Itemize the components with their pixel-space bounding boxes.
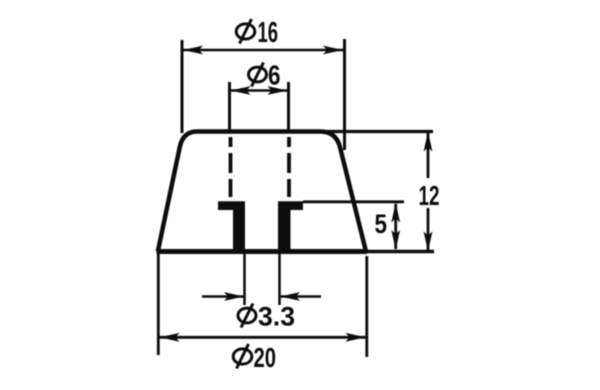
extension line phi16 left — [181, 40, 184, 133]
extension line phi6 right — [287, 82, 290, 131]
arrowhead phi16 left — [183, 46, 203, 55]
svg-text:12: 12 — [419, 180, 440, 211]
label phi6 — [249, 60, 281, 91]
dimension line phi16 — [183, 49, 343, 52]
extension line phi20 right — [365, 256, 368, 357]
svg-text:3.3: 3.3 — [258, 302, 295, 332]
body outline top and sides — [158, 132, 366, 252]
extension line 5 dim (flange top extended) — [303, 200, 404, 203]
arrowhead 5 top — [391, 203, 400, 223]
extension line phi6 left — [228, 82, 231, 131]
arrowhead 12 bottom — [424, 232, 433, 252]
label phi20 — [233, 342, 276, 373]
arrowhead phi16 right — [323, 46, 343, 55]
arrowhead phi6 left — [231, 86, 251, 95]
dimension line phi3.3 left tail — [202, 295, 244, 298]
body bottom edge — [157, 249, 368, 254]
svg-text:5: 5 — [375, 209, 388, 239]
dimension line phi20 — [159, 336, 366, 339]
dimension line phi3.3 right tail — [280, 295, 321, 298]
hidden hole line left (dashed) — [229, 137, 233, 199]
extension line top (12 dim) — [322, 130, 433, 133]
extension line bottom (12 dim) — [366, 250, 434, 253]
arrowhead phi3.3 left — [224, 292, 244, 301]
arrowhead phi6 right — [268, 86, 288, 95]
dimension line 12 lower segment — [427, 208, 430, 250]
extension line phi16 right — [343, 39, 346, 150]
label phi16 — [236, 17, 278, 49]
hidden hole line right (dashed) — [287, 137, 291, 199]
svg-text:16: 16 — [258, 17, 279, 49]
arrowhead 5 bottom — [391, 230, 400, 250]
svg-text:20: 20 — [254, 342, 277, 373]
extension line phi3.3 right — [278, 253, 281, 305]
dimension line 5 — [394, 204, 397, 249]
flange left (filled) — [218, 201, 245, 250]
extension line phi20 left — [157, 254, 160, 355]
arrowhead phi3.3 right — [280, 292, 300, 301]
arrowhead 12 top — [424, 132, 433, 152]
arrowhead phi20 left — [160, 333, 180, 342]
dimension line 12 upper segment — [427, 133, 430, 178]
flange right (filled) — [278, 201, 303, 250]
svg-text:6: 6 — [268, 60, 281, 91]
arrowhead phi20 right — [346, 333, 366, 342]
label phi3.3 — [238, 302, 295, 332]
extension line phi3.3 left — [243, 253, 246, 305]
dimension line phi6 — [230, 89, 288, 92]
